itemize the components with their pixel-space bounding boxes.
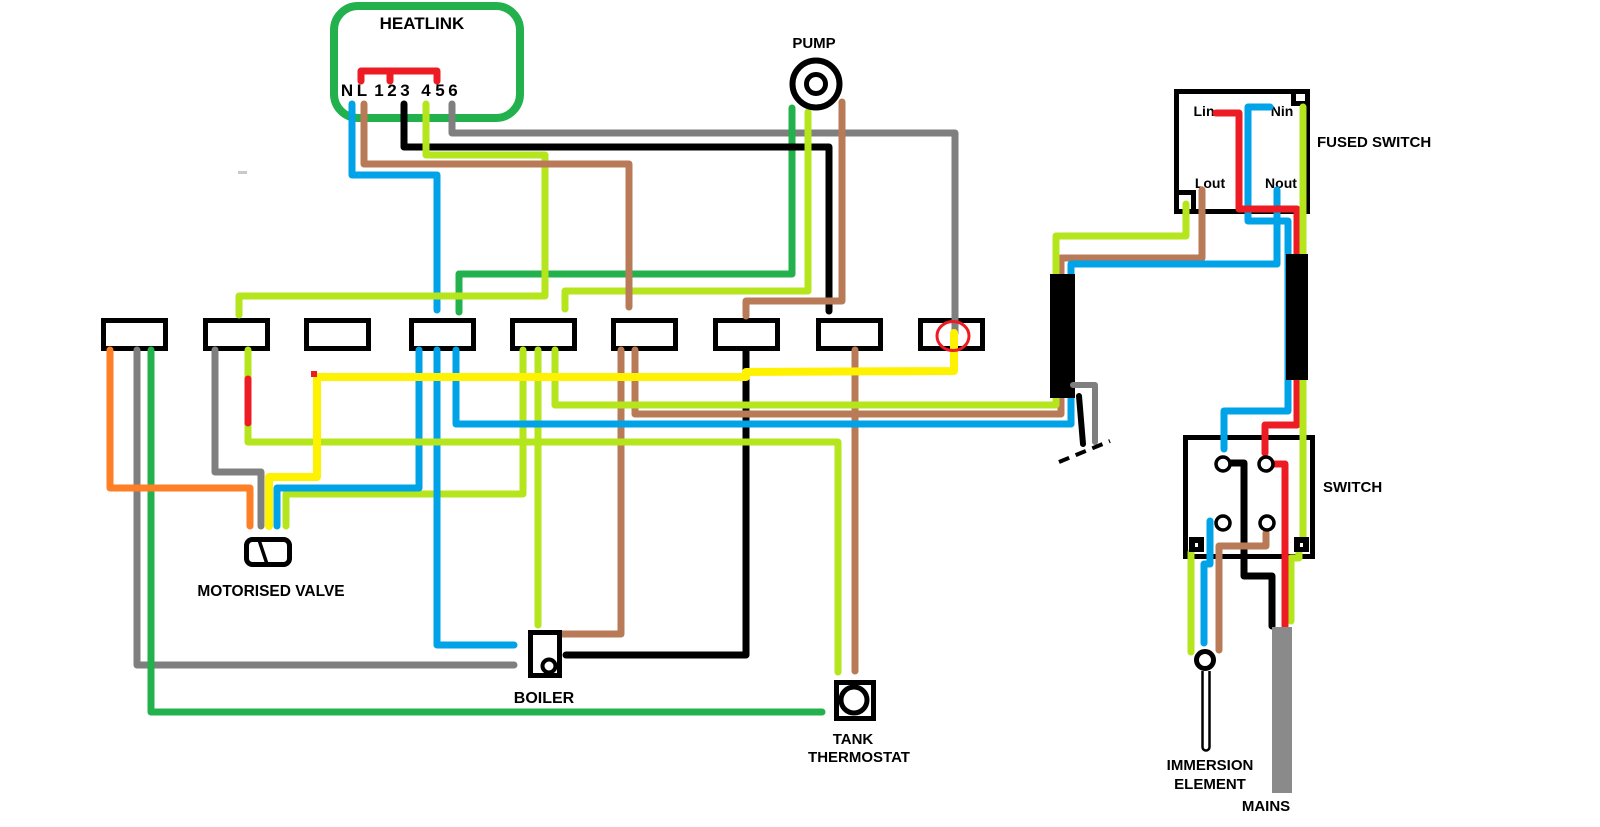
wire brown heatlink L to T6 — [364, 104, 629, 307]
wire brown T6 to boiler — [563, 350, 621, 634]
wire brown T6 to cable sheath to fused switch Lout — [635, 190, 1202, 414]
cable sheath below fused switch — [1286, 254, 1308, 380]
wire blue T4 to boiler — [437, 350, 514, 645]
wire yellow T9 to motorised valve — [269, 333, 954, 526]
terminal block T1 — [104, 321, 166, 349]
wire black switch top-left terminal to mains cable — [1230, 463, 1272, 626]
tank thermostat dial — [841, 687, 867, 713]
boiler box — [531, 633, 560, 676]
svg-text:Nout: Nout — [1265, 175, 1297, 191]
HEATLINK control unit box — [334, 6, 520, 118]
svg-text:ELEMENT: ELEMENT — [1174, 776, 1246, 793]
wire blue T4 to cable sheath to fused switch Nout — [456, 190, 1277, 424]
tank thermostat box — [837, 683, 874, 719]
wire blue switch bottom-left terminal to immersion element — [1204, 521, 1210, 643]
svg-text:N: N — [341, 81, 353, 100]
small gray mark — [238, 171, 247, 174]
wire gray T2 to motorised valve — [215, 350, 261, 526]
red mark at yellow wire start — [311, 371, 317, 377]
wire red mains sheath to switch live terminal — [1265, 254, 1297, 453]
switch bottom-left terminal — [1216, 516, 1230, 530]
dashed cut mark — [1059, 441, 1110, 462]
svg-text:SWITCH: SWITCH — [1323, 479, 1382, 496]
wire red fused switch Lin to mains sheath — [1216, 113, 1297, 254]
switch top-left terminal — [1216, 457, 1230, 471]
terminal block T6 — [614, 321, 676, 349]
svg-text:5: 5 — [435, 81, 444, 100]
wire green/yellow switch left square to immersion element — [1188, 552, 1195, 652]
svg-text:HEATLINK: HEATLINK — [380, 14, 465, 33]
wire gray spare from sheath — [1073, 385, 1095, 442]
boiler pilot circle — [543, 660, 556, 673]
switch right fixing square — [1294, 537, 1309, 552]
wire blue heatlink N to T4 — [352, 104, 437, 310]
wire green/yellow T5 to cable sheath to fused switch square — [555, 204, 1186, 405]
svg-text:THERMOSTAT: THERMOSTAT — [808, 749, 910, 766]
wire green/yellow pump to T5 — [565, 112, 808, 309]
wire black spare from sheath — [1079, 396, 1083, 444]
pump symbol — [793, 61, 840, 108]
svg-text:1: 1 — [374, 81, 383, 100]
wire green/yellow T5 to boiler — [535, 350, 542, 625]
wire green/yellow T5 to motorised valve — [286, 350, 523, 526]
wire blue T4 to motorised valve — [277, 350, 419, 526]
svg-text:Nin: Nin — [1271, 103, 1294, 119]
motorised valve symbol — [247, 540, 290, 565]
wire brown switch bottom-right terminal to immersion element — [1219, 533, 1266, 650]
wire gray T1 to boiler — [137, 350, 514, 665]
svg-text:4: 4 — [421, 81, 431, 100]
switch top-right terminal — [1259, 457, 1273, 471]
red highlight circle on T9 — [937, 322, 969, 351]
terminal block T8 — [819, 321, 881, 349]
red link bracket centre drop — [387, 71, 394, 81]
svg-text:FUSED SWITCH: FUSED SWITCH — [1317, 134, 1431, 151]
svg-text:3: 3 — [400, 81, 409, 100]
fused switch box — [1177, 92, 1308, 212]
switch bottom-right terminal — [1260, 516, 1274, 530]
svg-text:MOTORISED VALVE: MOTORISED VALVE — [197, 583, 344, 600]
svg-text:L: L — [357, 81, 367, 100]
wire black heatlink terminal 3 to T8 — [404, 104, 829, 311]
terminal block T3 — [307, 321, 369, 349]
svg-text:6: 6 — [448, 81, 457, 100]
mains cable gray sheath — [1272, 627, 1292, 793]
svg-text:MAINS: MAINS — [1242, 798, 1290, 815]
wire green T1 earth run to tank thermostat area — [151, 350, 822, 712]
terminal block T2 — [206, 321, 268, 349]
wire orange T1 to motorised valve — [110, 350, 250, 526]
motorised valve lever — [259, 540, 267, 564]
wire blue fused switch Nin through mains sheath to switch — [1224, 107, 1288, 449]
wire brown pump to T7 — [746, 102, 842, 316]
red mark over green/yellow at T2 — [245, 379, 252, 423]
svg-text:2: 2 — [387, 81, 396, 100]
wire green/yellow heatlink terminal 4 to T2 — [239, 104, 545, 315]
fused switch bottom-left terminal square — [1177, 193, 1194, 212]
wire green/yellow T2 to tank thermostat — [248, 350, 838, 672]
svg-text:PUMP: PUMP — [792, 35, 835, 52]
cable sheath between terminal strip and fused switch — [1050, 274, 1075, 398]
svg-text:TANK: TANK — [833, 731, 874, 748]
wire gray heatlink terminal 6 to terminal block T9 — [452, 104, 955, 333]
terminal block T5 — [513, 321, 575, 349]
wire red switch top-right terminal to mains cable — [1271, 464, 1285, 626]
switch left fixing square — [1189, 537, 1204, 552]
svg-text:IMMERSION: IMMERSION — [1167, 757, 1254, 774]
wire green pump to T4 — [459, 108, 792, 312]
terminal block T7 — [716, 321, 778, 349]
immersion element terminal circle — [1197, 652, 1214, 669]
terminal block T9 — [921, 321, 983, 349]
wire green/yellow fused switch through sheath and switch to mains — [1291, 107, 1303, 621]
svg-text:BOILER: BOILER — [514, 690, 575, 707]
svg-text:Lin: Lin — [1194, 103, 1215, 119]
terminal block T4 — [412, 321, 474, 349]
fused switch top-right terminal square — [1294, 92, 1308, 104]
switch box — [1186, 438, 1313, 557]
immersion element probe — [1203, 671, 1210, 751]
wire brown T8 to tank thermostat — [852, 350, 859, 671]
red link bracket in HEATLINK — [361, 71, 437, 81]
wire black T7 to boiler — [566, 350, 746, 655]
